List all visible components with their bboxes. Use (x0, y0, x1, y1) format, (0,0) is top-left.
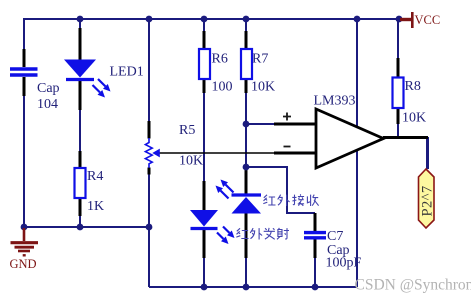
svg-text:GND: GND (10, 257, 37, 271)
svg-text:R5: R5 (179, 123, 195, 138)
svg-text:100: 100 (212, 80, 233, 95)
svg-text:10K: 10K (179, 154, 203, 169)
svg-text:10K: 10K (251, 80, 275, 95)
svg-text:CSDN @Synchron.: CSDN @Synchron. (355, 277, 471, 294)
svg-text:LED1: LED1 (110, 65, 144, 80)
svg-text:VCC: VCC (415, 13, 441, 27)
svg-text:LM393: LM393 (314, 94, 356, 109)
svg-text:R8: R8 (405, 79, 421, 94)
svg-text:104: 104 (37, 97, 58, 112)
svg-text:P2^7: P2^7 (420, 186, 436, 217)
svg-text:R7: R7 (252, 52, 268, 67)
svg-text:100pF: 100pF (326, 256, 362, 271)
svg-text:1K: 1K (87, 199, 104, 214)
svg-text:Cap: Cap (37, 81, 60, 96)
svg-text:R4: R4 (87, 169, 103, 184)
svg-text:C7: C7 (327, 229, 343, 244)
svg-text:10K: 10K (402, 111, 426, 126)
svg-text:R6: R6 (212, 52, 228, 67)
